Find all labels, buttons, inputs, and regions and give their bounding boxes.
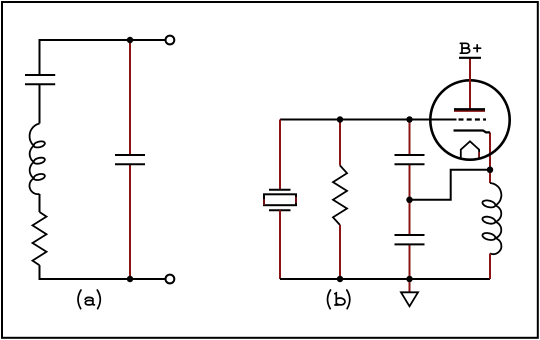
plate (anode) bar <box>454 108 485 110</box>
label B+ <box>460 43 480 53</box>
inductor L1 (left branch coil of (a)) <box>30 124 45 195</box>
heater filament tent <box>461 141 479 159</box>
label (b) <box>328 290 350 309</box>
wire bottom horizontal (b) <box>280 278 490 280</box>
wire feedback tap to cathode <box>410 170 491 200</box>
node junction dot grid-resistor <box>337 116 344 123</box>
wire top horizontal / grid lead (b) <box>280 119 457 121</box>
wire resistor branch lower red <box>339 225 341 279</box>
capacitor C2 (shunt, middle of (a)) <box>115 155 145 164</box>
plate bar red underline artifact <box>454 110 485 112</box>
terminal bottom (a) <box>166 275 175 284</box>
inductor L2 (tickler coil of (b)) <box>483 183 502 254</box>
heater leg red artifact <box>478 152 480 157</box>
wire bottom horizontal (a) <box>40 278 165 280</box>
terminal top (a) <box>166 36 175 45</box>
capacitor C3 (upper, chain of (b)) <box>395 155 425 164</box>
node junction dot top (a) <box>127 37 134 44</box>
grid dashes <box>459 118 487 120</box>
wire capacitor chain red <box>409 120 411 280</box>
wire middle vertical red (a) <box>129 41 131 278</box>
wire resistor branch upper red <box>339 120 341 166</box>
cathode <box>454 131 491 133</box>
wire ground stub red <box>409 279 411 292</box>
node junction dot bottom-resistor <box>337 276 344 283</box>
crystal body red edge artifacts <box>264 197 296 205</box>
capacitor C4 (lower, chain of (b)) <box>395 235 425 244</box>
tube V1 envelope circle <box>430 80 509 159</box>
wire inductor to resistor <box>39 194 41 212</box>
capacitor C1 (series, left branch of (a)) <box>25 75 55 84</box>
wire crystal branch lower red <box>279 210 281 279</box>
label (a) <box>78 290 100 309</box>
ground symbol <box>401 292 418 306</box>
wire cathode lead red <box>489 132 491 169</box>
plate lead red <box>469 58 471 109</box>
wire coil branch red upper <box>489 170 491 183</box>
wire resistor to bottom <box>39 265 41 280</box>
node junction dot bottom (a) <box>127 276 134 283</box>
wire crystal branch upper red <box>279 120 281 190</box>
resistor R1 (left branch zigzag of (a)) <box>33 212 47 265</box>
crystal Y1 top plate <box>269 189 291 191</box>
wire left column top (a) <box>39 39 41 75</box>
wire cap to inductor <box>39 84 41 123</box>
B+ terminal bar <box>459 57 481 59</box>
node junction dot bottom-ground <box>406 276 413 283</box>
crystal Y1 body <box>264 194 296 205</box>
wire coil branch red lower <box>489 254 491 280</box>
node junction dot cathode <box>487 167 494 174</box>
node junction dot cap tap <box>406 197 413 204</box>
resistor R2 (grid-leak zigzag of (b)) <box>333 166 347 226</box>
wire top horizontal (a) <box>40 39 165 41</box>
node junction dot grid-cap <box>406 116 413 123</box>
crystal Y1 bottom plate <box>269 209 291 211</box>
